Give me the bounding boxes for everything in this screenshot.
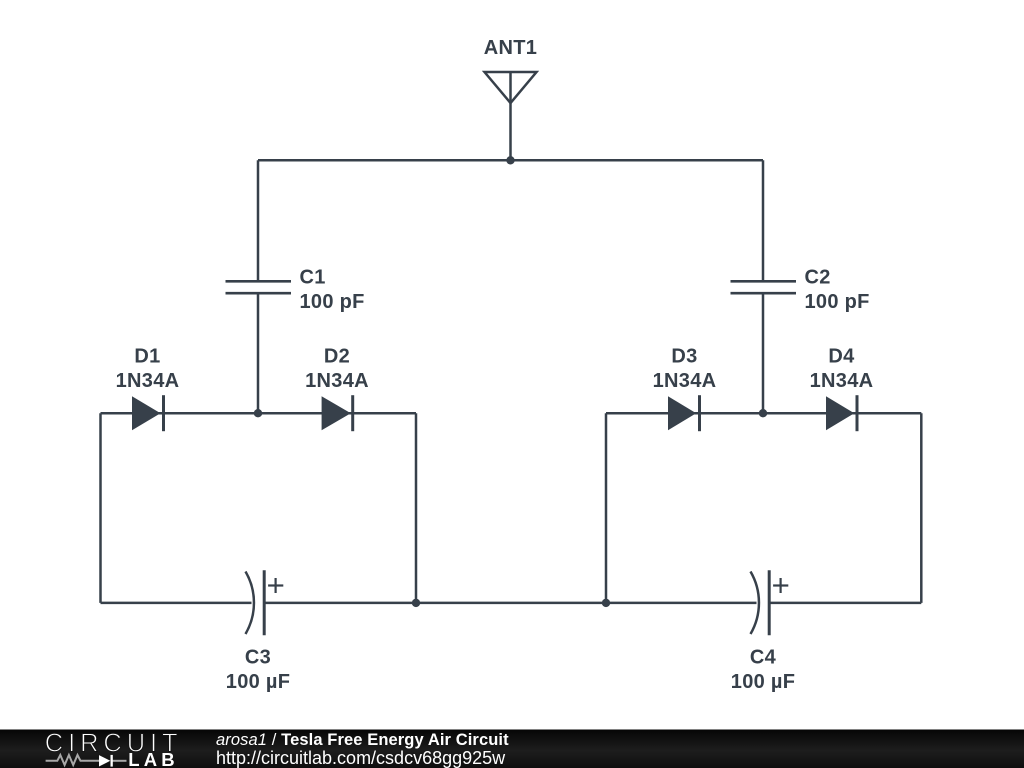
wire bridge interconnect bottom bbox=[416, 602, 606, 605]
svg-text:100 pF: 100 pF bbox=[300, 291, 365, 313]
wire C1 bottom lead bbox=[257, 293, 260, 413]
capacitor C2 bbox=[731, 281, 797, 293]
junction left bridge output node bbox=[412, 599, 420, 607]
svg-text:C1: C1 bbox=[300, 267, 326, 289]
capacitor C4 bbox=[751, 570, 789, 635]
svg-text:C3: C3 bbox=[245, 647, 271, 669]
svg-text:D2: D2 bbox=[324, 346, 350, 368]
logo resistor-diode icon bbox=[46, 755, 127, 765]
junction right bridge output node bbox=[602, 599, 610, 607]
wire left bridge top bbox=[101, 412, 417, 415]
wire C2 top lead bbox=[762, 160, 765, 281]
wire left bridge left side bbox=[99, 413, 102, 603]
junction C1-D1-D2 node bbox=[254, 409, 262, 417]
junction antenna node bbox=[506, 156, 514, 164]
wire C2 bottom lead bbox=[762, 293, 765, 413]
svg-text:1N34A: 1N34A bbox=[810, 370, 874, 392]
capacitor C3 bbox=[246, 570, 284, 635]
wire C1 top lead bbox=[257, 160, 260, 281]
wire left bridge right side bbox=[415, 413, 418, 603]
svg-text:100 µF: 100 µF bbox=[731, 671, 795, 693]
diode D1 bbox=[132, 395, 164, 431]
diode D4 bbox=[826, 395, 857, 431]
svg-text:arosa1 / Tesla Free Energy Air: arosa1 / Tesla Free Energy Air Circuit bbox=[216, 731, 509, 749]
wire right bridge top bbox=[606, 412, 921, 415]
svg-text:D1: D1 bbox=[134, 346, 160, 368]
svg-text:C2: C2 bbox=[805, 267, 831, 289]
svg-text:D4: D4 bbox=[828, 346, 855, 368]
svg-text:LAB: LAB bbox=[128, 749, 179, 768]
svg-text:1N34A: 1N34A bbox=[116, 370, 180, 392]
svg-text:C4: C4 bbox=[750, 647, 777, 669]
diode D3 bbox=[668, 395, 700, 431]
wire left bridge bottom right bbox=[264, 602, 416, 605]
antenna ANT1 bbox=[485, 72, 537, 160]
svg-text:1N34A: 1N34A bbox=[653, 370, 717, 392]
svg-text:1N34A: 1N34A bbox=[305, 370, 369, 392]
footer bar bbox=[0, 730, 1024, 768]
wire right bridge bottom left bbox=[606, 602, 757, 605]
wire top bus bbox=[258, 159, 763, 162]
svg-text:http://circuitlab.com/csdcv68g: http://circuitlab.com/csdcv68gg925w bbox=[216, 748, 506, 768]
svg-text:ANT1: ANT1 bbox=[484, 37, 537, 59]
wire right bridge right side bbox=[920, 413, 923, 603]
wire right bridge left side bbox=[605, 413, 608, 603]
svg-text:100 pF: 100 pF bbox=[805, 291, 870, 313]
wire left bridge bottom left bbox=[101, 602, 252, 605]
svg-text:D3: D3 bbox=[671, 346, 697, 368]
junction C2-D3-D4 node bbox=[759, 409, 767, 417]
wire right bridge bottom right bbox=[769, 602, 921, 605]
capacitor C1 bbox=[226, 281, 292, 293]
diode D2 bbox=[322, 395, 353, 431]
svg-text:100 µF: 100 µF bbox=[226, 671, 290, 693]
